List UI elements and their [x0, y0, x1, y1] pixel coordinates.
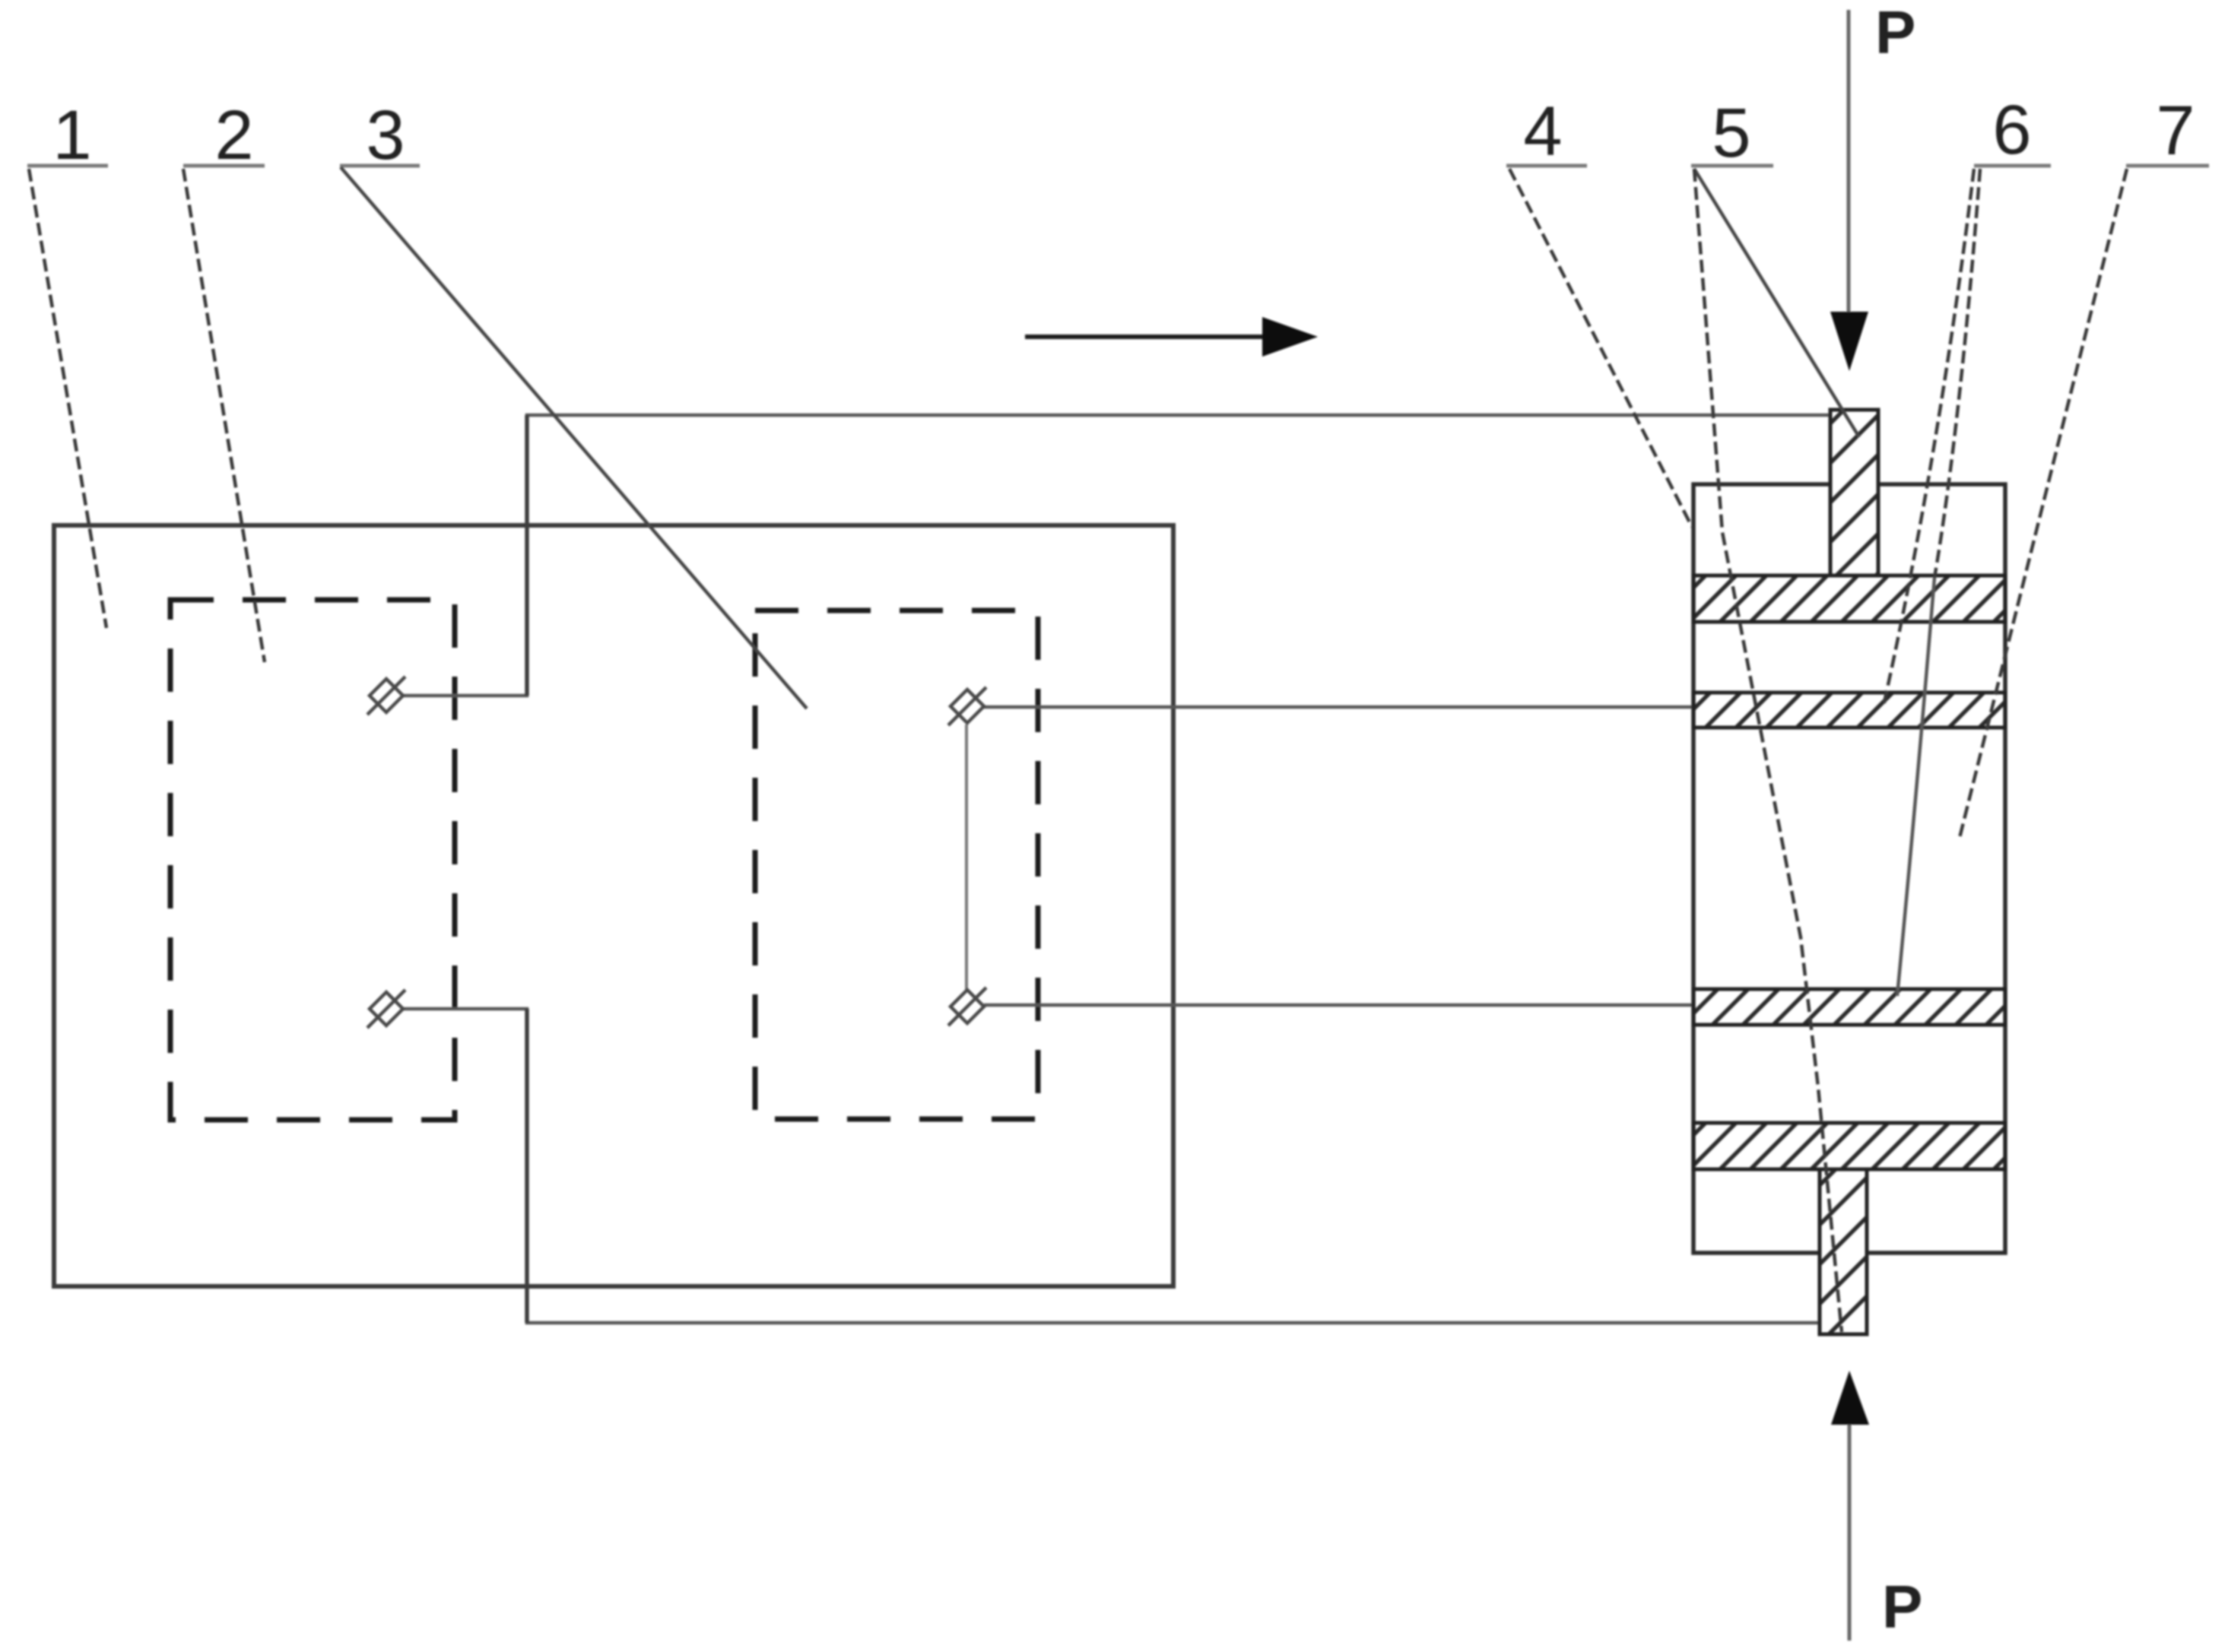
svg-text:P: P: [1882, 1573, 1922, 1641]
svg-text:6: 6: [1992, 91, 2031, 169]
svg-text:3: 3: [366, 97, 405, 174]
svg-text:7: 7: [2156, 92, 2195, 170]
svg-text:4: 4: [1523, 93, 1562, 170]
svg-text:2: 2: [214, 97, 253, 174]
svg-text:1: 1: [52, 97, 91, 174]
svg-text:5: 5: [1712, 94, 1750, 172]
svg-text:P: P: [1875, 0, 1915, 66]
